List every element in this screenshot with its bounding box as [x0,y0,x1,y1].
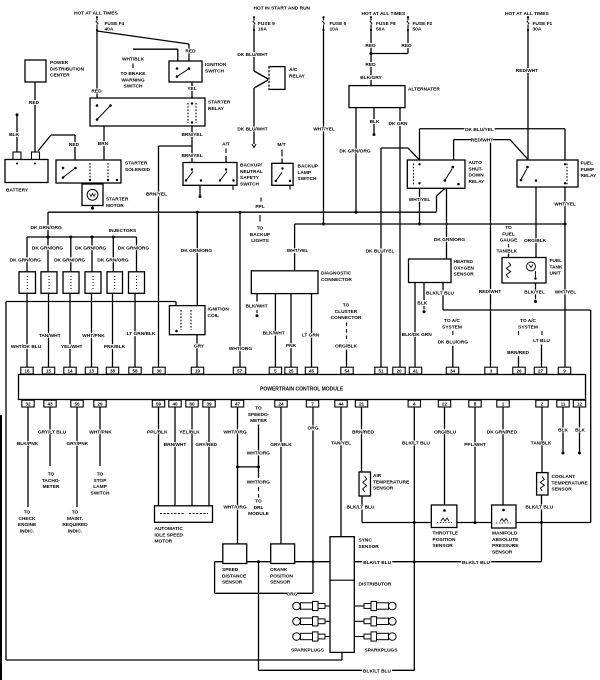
svg-text:TO: TO [343,303,350,309]
svg-text:WHT/ORG: WHT/ORG [247,451,270,457]
node bus2 junction [413,560,416,563]
svg-text:SYSTEM: SYSTEM [442,324,462,330]
svg-text:HOT AT ALL TIMES: HOT AT ALL TIMES [74,11,119,17]
label PPL/WHT [464,442,486,447]
backup lamp switch [272,163,293,185]
svg-text:BLK: BLK [575,427,585,433]
svg-text:44: 44 [338,402,344,407]
svg-text:BLK: BLK [558,427,568,433]
svg-text:WHT/YEL: WHT/YEL [313,127,335,133]
wire BLK alternator ground [373,108,375,133]
PCM pin 15 [42,367,54,374]
speed distance sensor [223,544,247,564]
label BLK/PNK [17,441,39,446]
svg-text:TO: TO [257,226,264,232]
wire into ignition coil [175,302,177,306]
dash cluster [346,329,348,333]
fuse F1 30A [527,17,529,20]
svg-text:STARTER: STARTER [106,197,129,203]
wire spark plug [325,636,330,638]
label A/T [221,142,231,147]
wire into ASD relay [419,129,421,160]
wire DK BLU/WHT fuse 9 to A/C relay [253,30,255,71]
label WHT/PNK [90,429,112,434]
dash DRL [258,494,260,498]
wire BRN/YEL to PCM pin 30 [158,146,160,367]
wire WHT/PNK to stop lamp switch [99,407,101,466]
svg-text:TAN/BLK: TAN/BLK [496,248,517,254]
label ORG/BLU [434,429,456,434]
wire YEL ignition switch to starter relay [191,82,193,98]
svg-text:TO: TO [255,406,262,412]
wire injector drop [91,237,93,272]
svg-text:40A: 40A [105,27,114,33]
wire ASD relay to injector feed bus [436,196,438,212]
injector 6 [129,272,145,294]
label BLK/WHT [246,303,268,308]
svg-text:30: 30 [156,369,162,374]
label GRY/LT BLU [37,429,67,434]
svg-text:BRN: BRN [98,141,109,147]
injector 4 [85,272,101,294]
svg-text:29: 29 [97,402,103,407]
fuse F4 40A [96,17,98,20]
label to check engine indic [23,510,30,515]
svg-text:TO A/C: TO A/C [444,318,461,324]
PCM pin 30 [153,367,165,374]
label sparkplugs (right) [364,648,394,653]
wire TAN/YEL pin 44 to sync sensor [340,407,342,537]
label DK GRN/ORG [340,149,370,154]
svg-text:SENSOR: SENSOR [270,580,291,586]
svg-text:YEL/WHT: YEL/WHT [61,344,83,350]
svg-text:BACKUP: BACKUP [298,164,319,170]
svg-text:RELAY: RELAY [581,173,598,179]
wire LT GRN to PCM pin 45 [311,294,313,368]
label BLK/YEL [524,290,546,295]
svg-text:GRY/RED: GRY/RED [195,442,217,448]
svg-text:21: 21 [359,402,365,407]
wire starter motor ground [92,206,94,208]
svg-text:RELAY: RELAY [469,179,486,185]
svg-text:20: 20 [396,369,402,374]
PCM pin 57 [233,367,245,374]
dash cluster [346,323,348,327]
svg-text:51: 51 [378,369,384,374]
svg-text:CLUSTER: CLUSTER [335,309,358,315]
svg-text:50A: 50A [376,27,385,33]
svg-text:DK GRN/RED: DK GRN/RED [487,429,518,435]
node junction [257,465,260,468]
label injectors [108,228,135,233]
wire ORG/BLK to PCM pin 54 [346,350,348,368]
svg-text:BRN/RED: BRN/RED [507,350,529,356]
svg-text:LT GRN: LT GRN [302,333,320,339]
wire injector to PCM pin [69,293,71,367]
svg-text:A/T: A/T [222,142,230,148]
svg-text:RED: RED [365,43,376,49]
svg-text:SENSOR: SENSOR [373,486,394,492]
wire ORG line [215,592,313,594]
label ORG [308,426,318,431]
wire fuse F4 to starter relay [96,30,98,98]
spark plug right row 621.3 [364,619,371,624]
battery [5,160,48,183]
label DK GRN/ORG [76,245,106,250]
wire injector to PCM pin [26,293,28,367]
svg-text:GRY/BLK: GRY/BLK [270,442,292,448]
PCM pin 16 [21,367,33,374]
wire spark plug [354,620,364,622]
PCM pin 34 [446,367,458,374]
PCM pin 43 [44,400,56,407]
wire WHT/ORG pin 47 to speed distance sensor [237,407,239,544]
label PPL [255,204,265,209]
PCM pin 20 [393,367,405,374]
node backup switch ground dot [199,195,202,198]
svg-text:ORG: ORG [308,426,319,432]
dash A/C [452,331,454,335]
wire injector drop [70,237,72,272]
svg-text:58: 58 [132,369,138,374]
wire injector drop [136,237,138,272]
wire BLK/WHT to PCM pin 5 [274,294,276,368]
svg-text:32: 32 [25,402,31,407]
label BLK/LT BLU [362,560,392,565]
svg-text:WHT/DK BLU: WHT/DK BLU [11,344,42,350]
label ignition coil [207,307,231,312]
label crank position sensor [269,567,285,572]
air temperature sensor [359,472,371,496]
svg-text:CHECK: CHECK [18,516,36,522]
svg-text:TO: TO [24,510,31,516]
svg-text:9: 9 [563,369,566,374]
wire diagonal to fuel pump relay [510,140,528,160]
wire DK GRN/ORG alternator to injector feed bus [355,108,357,213]
svg-text:60: 60 [189,402,195,407]
svg-text:13: 13 [89,369,95,374]
svg-text:STARTER: STARTER [208,100,231,106]
svg-text:ORG: ORG [287,591,298,597]
wire fuse F8 to alternator [370,30,372,86]
wire PDC to battery [34,82,36,152]
wire RED/WHT fuse F1 to fuel pump relay [527,30,529,160]
PCM pin 60 [186,400,198,407]
stub backup switch [232,185,234,190]
wire DK GRN/ORG injector feed bus [48,211,437,213]
svg-text:POSITION: POSITION [270,573,293,579]
wire BLK/LT BLU sensor bus upper [362,522,591,524]
svg-text:FUEL: FUEL [550,258,563,264]
svg-text:IGNITION: IGNITION [205,62,227,68]
label RED/WHT [479,289,501,294]
wire to automatic idle speed motor [158,407,160,506]
svg-text:43: 43 [47,402,53,407]
svg-text:SENSOR: SENSOR [552,487,573,493]
svg-text:WHT/PNK: WHT/PNK [82,333,105,339]
fuse 9 16A [253,17,255,20]
label LT BLU [532,338,551,343]
svg-text:BRN/WHT: BRN/WHT [164,442,187,448]
node fuel tank ground dot [534,300,537,303]
svg-text:12: 12 [577,402,583,407]
PCM pin 59 [152,400,164,407]
svg-text:22: 22 [442,402,448,407]
label WHT/DK BLU [11,344,41,349]
svg-text:FUSE 5: FUSE 5 [330,21,347,27]
label BLK/DK GRN [402,332,432,337]
svg-text:A/C: A/C [289,67,298,73]
node ORG crossing [312,560,315,563]
label DK GRN/RED [487,429,517,434]
PCM pin 3 [485,367,497,374]
label fuel pump relay [580,161,593,166]
label BLK [9,132,19,137]
label air temperature sensor [372,473,382,478]
wire BLK/LT BLU across [443,309,591,311]
svg-text:BRN/YEL: BRN/YEL [146,192,167,198]
PCM pin 9 [558,367,570,374]
PCM pin 38 [106,367,118,374]
PCM pin 11 [557,400,569,407]
svg-text:BRN/YEL: BRN/YEL [181,132,202,138]
node bus1 junction [413,521,416,524]
svg-text:HOT AT ALL TIMES: HOT AT ALL TIMES [362,11,407,17]
wire ORG/BLU pin 22 to throttle position sensor [444,407,446,505]
label to maint required indic [71,510,78,515]
svg-text:TACHO-: TACHO- [42,478,61,484]
node pin 8 junction [474,521,477,524]
wire spark plug [325,605,330,607]
svg-text:ORG/BLK: ORG/BLK [524,238,547,244]
label ORG [287,591,297,596]
svg-text:IDLE SPEED: IDLE SPEED [155,532,184,538]
svg-text:BLK/LT BLU: BLK/LT BLU [347,505,375,511]
label ORG/BLK [524,238,546,243]
label fuel tank unit [549,258,562,263]
header hot at all times (middle) [361,11,409,16]
wire DK GRN/ORG to ignition coil [196,212,198,305]
PCM pin 27 [534,367,546,374]
svg-text:YEL/BLK: YEL/BLK [179,429,200,435]
svg-text:RED: RED [91,89,102,95]
dash PPL [260,198,262,202]
svg-text:11: 11 [561,402,566,407]
node fuse5 WHT/YEL [322,223,325,226]
wire backup switch ground stub [199,185,201,195]
label RED [366,62,376,67]
label TAN/BLK [496,248,518,253]
label TAN/YEL [330,441,352,446]
svg-text:DOWN: DOWN [469,173,485,179]
label A/C relay [288,67,298,72]
svg-text:LT GRN/BLK: LT GRN/BLK [127,331,156,337]
svg-text:YEL: YEL [187,86,196,92]
svg-text:WHT/YEL: WHT/YEL [287,248,309,254]
svg-text:RED: RED [365,62,376,68]
label ORG/BLK [335,343,357,348]
svg-text:DK GRN: DK GRN [389,121,408,127]
svg-text:WHT/ORG: WHT/ORG [223,505,246,511]
svg-text:DRL: DRL [254,505,264,511]
node BLK ground dot [423,310,426,313]
wire injector drop [47,237,49,272]
svg-text:TAN/YEL: TAN/YEL [331,441,351,447]
label to speedometer [255,406,262,411]
wire into solenoid [74,135,76,160]
wire injector drop [26,237,28,272]
svg-text:FUSE F1: FUSE F1 [533,21,553,27]
label DK BLU/WHT [237,52,267,57]
spark plug right row 636.5 [364,634,371,639]
svg-text:MAINT.: MAINT. [67,516,83,522]
wire BRN/RED to PCM pin 26 [518,356,520,367]
svg-text:LIGHTS: LIGHTS [251,238,269,244]
svg-text:RED/WHT: RED/WHT [516,68,538,74]
label to brake warning switch [121,71,145,76]
wire to automatic idle speed motor [191,407,193,506]
header hot in start and run [253,6,312,11]
svg-text:WHT/BLK: WHT/BLK [122,57,145,63]
label BRN [98,141,108,146]
wire M/T into backup lamp switch [281,159,283,164]
scan border left edge [0,415,2,680]
wire ASD relay pin diagonal [437,188,446,196]
svg-text:DK BLU/WHT: DK BLU/WHT [237,52,267,58]
label DK GRN/ORG [181,248,211,253]
wire GRY/BLK pin 24 to crank position sensor [280,407,282,544]
label DK BLU/YEL [365,249,395,254]
svg-text:MOTOR: MOTOR [155,539,173,545]
wire BRN starter relay to solenoid [103,126,105,160]
svg-text:RED: RED [401,43,412,49]
svg-text:25: 25 [288,369,294,374]
svg-text:REQUIRED: REQUIRED [62,522,88,528]
svg-text:DK GRN/ORG: DK GRN/ORG [10,257,41,263]
wire BLK pin 11 [562,407,564,452]
label BRN/YEL [181,153,203,158]
label DK GRN/ORG [55,257,85,262]
dash to brake warning switch [132,64,134,69]
svg-text:BLK/GRY: BLK/GRY [360,75,382,81]
PCM pin 7 [306,400,318,407]
PCM pin 19 [191,367,203,374]
svg-text:BLK/WHT: BLK/WHT [245,303,267,309]
label BLK/LT BLU [362,669,392,674]
svg-text:THROTTLE: THROTTLE [433,531,459,537]
svg-text:SPEED: SPEED [222,567,239,573]
dash M/T [281,150,283,157]
svg-text:FUEL: FUEL [502,231,515,237]
svg-text:2: 2 [541,402,544,407]
svg-text:TEMPERATURE: TEMPERATURE [373,479,410,485]
svg-text:BACKUP/: BACKUP/ [240,163,263,169]
svg-text:LT BLU: LT BLU [533,338,550,344]
PCM pin 54 [341,367,353,374]
node fuse join [370,52,373,55]
wire bus down to injector rail [47,212,49,237]
svg-text:ORG/BLK: ORG/BLK [335,343,358,349]
ignition coil [169,306,205,335]
dash to backup lights [259,215,261,222]
wire RED/WHT to PCM pin 3 [490,142,492,367]
PCM pin 32 [22,400,34,407]
starter relay [90,98,205,126]
svg-text:PPL/WHT: PPL/WHT [464,442,486,448]
label alternator [407,87,437,92]
label RED [366,43,376,48]
wire BLK/LT BLU pin 4 down [413,407,415,670]
label diagnostic connector [320,271,350,276]
svg-text:CENTER: CENTER [50,73,70,79]
wire to automatic idle speed motor [208,407,210,506]
svg-text:ENGINE: ENGINE [18,522,37,528]
svg-text:RELAY: RELAY [208,106,225,112]
svg-text:14: 14 [67,369,73,374]
svg-text:COOLANT: COOLANT [552,474,576,480]
wire BLK/LT BLU from O2 sensor [442,283,444,311]
svg-text:SYNC: SYNC [359,538,373,544]
auto shut-down relay [407,160,465,188]
label to A/C system (left) [443,318,462,323]
PCM pin 56 [71,400,83,407]
PCM pin 45 [305,367,317,374]
svg-text:PUMP: PUMP [581,167,596,173]
label PNK/BLK [104,344,126,349]
fuel pump relay [517,160,578,187]
PCM pin 1 [497,400,509,407]
svg-text:HEATED: HEATED [454,259,474,265]
svg-text:COIL: COIL [208,313,220,319]
svg-text:M/T: M/T [277,142,285,148]
svg-text:59: 59 [156,402,162,407]
label TAN/WHT [39,333,61,338]
dash A/C pin27 [541,331,543,335]
svg-text:GRY/PNK: GRY/PNK [66,441,88,447]
svg-text:SENSOR: SENSOR [359,544,380,550]
node battery ground dot [16,113,19,116]
svg-text:WARNING: WARNING [121,77,144,83]
wire ORG/BLK fuel pump relay to fuel tank unit [535,187,537,258]
wire left edge coil feed [5,302,7,661]
label DK BLU/WHT [237,127,267,132]
PCM pin 13 [85,367,97,374]
svg-text:DK GRN/ORG: DK GRN/ORG [32,245,63,251]
PCM pin 25 [285,367,297,374]
svg-text:BLK/LT BLU: BLK/LT BLU [363,560,391,566]
label BRN/RED [352,429,374,434]
wire WHT/ORG speedometer [258,425,260,467]
wire to automatic idle speed motor [174,407,176,506]
label to stop lamp switch [96,472,103,477]
wire BLK/LT BLU down [258,562,260,671]
svg-text:POWER: POWER [50,60,69,66]
wire diagonal into ASD relay [408,148,420,160]
wire WHT/YEL into diagnostic connector [294,224,296,271]
label manifold absolute pressure sensor [491,531,515,536]
label to A/C system (right) [519,318,538,323]
node alternator feed [355,211,358,214]
label WHT/YEL [287,248,309,253]
label WHT/BLK [122,57,144,62]
label YEL [187,86,197,91]
svg-text:INDIC.: INDIC. [68,528,82,534]
svg-text:DK GRN/ORG: DK GRN/ORG [118,245,149,251]
label TAN/BLK [530,441,552,446]
svg-text:BLK/LT BLU: BLK/LT BLU [462,560,490,566]
PCM pin 22 [438,400,450,407]
node BLK ground dot [562,452,565,455]
